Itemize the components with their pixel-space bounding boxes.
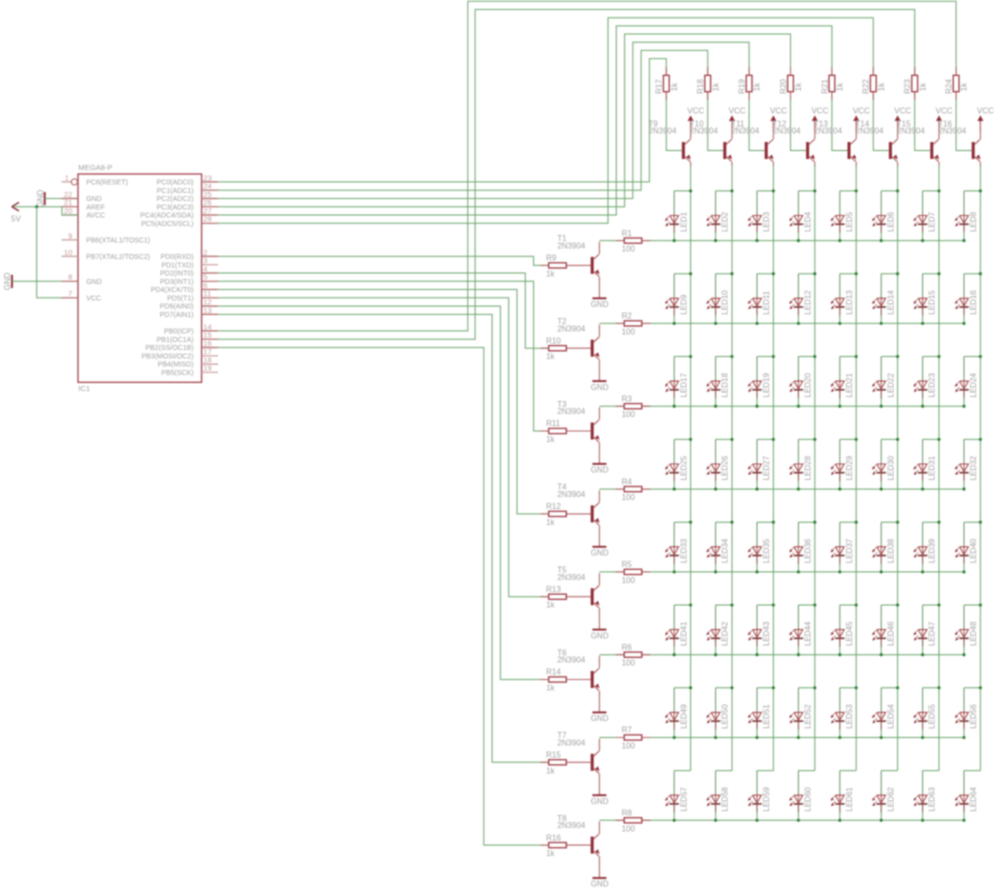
svg-text:2N3904: 2N3904	[855, 127, 884, 136]
LED LED56	[955, 688, 978, 738]
svg-text:LED6: LED6	[886, 211, 895, 232]
wire column 3 vertical	[772, 191, 774, 771]
wire T12 emitter down column 4	[814, 162, 816, 167]
ground symbol GND row 3	[591, 464, 609, 475]
wire column 6 tap to LED38	[881, 521, 897, 523]
svg-text:R12: R12	[546, 502, 561, 511]
svg-text:PC1(ADC1): PC1(ADC1)	[157, 188, 194, 195]
wire row 3 line	[599, 405, 964, 407]
junction LED63 cathode to row 8	[921, 819, 924, 822]
pin 27 PC4(ADC4/SDA) (right)	[140, 206, 218, 219]
junction column 2 row 6 tap	[730, 603, 733, 606]
LED LED3	[748, 191, 771, 241]
junction column 1 row 7 tap	[689, 686, 692, 689]
svg-text:PD7(AIN1): PD7(AIN1)	[160, 312, 194, 319]
svg-text:LED17: LED17	[679, 372, 688, 397]
junction column 4 row 3 tap	[813, 355, 816, 358]
svg-text:100: 100	[622, 327, 636, 336]
svg-text:PB2(SS/OC1B): PB2(SS/OC1B)	[145, 345, 193, 352]
svg-text:1k: 1k	[836, 82, 845, 91]
junction column 5 row 1 tap	[855, 189, 858, 192]
junction LED22 cathode to row 3	[880, 405, 883, 408]
svg-text:2N3904: 2N3904	[731, 127, 760, 136]
svg-text:2N3904: 2N3904	[557, 242, 586, 251]
transistor T12 (column driver)	[806, 139, 815, 161]
wire T6 collector to row resistor R6	[598, 656, 600, 668]
junction column 4 row 6 tap	[813, 603, 816, 606]
wire T10 emitter down column 2	[731, 162, 733, 167]
resistor R21 1k (column driver base)	[820, 75, 844, 94]
junction column 4 row 5 tap	[813, 521, 816, 524]
svg-text:100: 100	[622, 742, 636, 751]
junction LED1 cathode to row 1	[673, 239, 676, 242]
junction column 3 row 7 tap	[772, 686, 775, 689]
junction column 2 row 7 tap	[730, 686, 733, 689]
resistor R1 100 (row 1)	[622, 229, 642, 254]
pin 11 PD5(T1) (right)	[167, 289, 218, 302]
svg-text:PC4(ADC4/SDA): PC4(ADC4/SDA)	[140, 213, 193, 220]
wire column 2 tap to LED58	[716, 770, 732, 772]
svg-text:R8: R8	[622, 809, 633, 818]
svg-text:100: 100	[622, 659, 636, 668]
LED LED60	[789, 771, 812, 821]
resistor R18 1k (column driver base)	[696, 75, 720, 94]
svg-text:LED30: LED30	[886, 455, 895, 480]
svg-text:1k: 1k	[794, 82, 803, 91]
junction column 8 row 2 tap	[979, 272, 982, 275]
wire column 8 tap to LED8	[964, 190, 980, 192]
junction column 3 row 6 tap	[772, 603, 775, 606]
junction LED50 cathode to row 7	[714, 736, 717, 739]
junction LED60 cathode to row 8	[797, 819, 800, 822]
svg-text:GND: GND	[591, 466, 609, 475]
junction LED23 cathode to row 3	[921, 405, 924, 408]
svg-text:LED48: LED48	[969, 621, 978, 646]
wire column 4 tap to LED44	[798, 604, 814, 606]
svg-text:AVCC: AVCC	[86, 213, 105, 220]
svg-text:R23: R23	[903, 79, 912, 94]
transistor T14 (column driver)	[889, 139, 898, 161]
wire column 2 tap to LED50	[716, 687, 732, 689]
svg-text:2N3904: 2N3904	[557, 490, 586, 499]
junction column 1 row 6 tap	[689, 603, 692, 606]
junction column 3 row 5 tap	[772, 521, 775, 524]
label T1 2N3904	[557, 234, 586, 250]
junction LED55 cathode to row 7	[921, 736, 924, 739]
svg-text:LED40: LED40	[969, 538, 978, 563]
junction LED5 cathode to row 1	[838, 239, 841, 242]
transistor T8 (row driver)	[591, 834, 600, 856]
svg-text:LED25: LED25	[679, 455, 688, 480]
svg-text:1k: 1k	[960, 82, 969, 91]
pin 7 VCC (left)	[62, 289, 101, 302]
junction LED48 cathode to row 6	[962, 653, 965, 656]
junction column 5 row 6 tap	[855, 603, 858, 606]
LED LED49	[665, 688, 688, 738]
junction column 1 row 3 tap	[689, 355, 692, 358]
wire column 6 tap to LED54	[881, 687, 897, 689]
junction LED28 cathode to row 4	[797, 488, 800, 491]
svg-text:2N3904: 2N3904	[557, 656, 586, 665]
svg-text:LED11: LED11	[762, 290, 771, 314]
wire column 3 tap to LED27	[757, 438, 773, 440]
pin 16 PB2(SS/OC1B) (right)	[145, 339, 218, 352]
svg-text:1k: 1k	[546, 435, 555, 444]
wire column 3 tap to LED19	[757, 356, 773, 358]
junction LED38 cathode to row 5	[880, 570, 883, 573]
svg-text:PC2(ADC2): PC2(ADC2)	[157, 196, 194, 203]
svg-text:28: 28	[203, 215, 211, 224]
wire pin11 to R13 (row 5 base)	[218, 298, 549, 597]
wire T13 collector to VCC	[855, 121, 857, 140]
supply VCC column 4	[811, 106, 828, 131]
pin 15 PB1(OC1A) (right)	[157, 331, 218, 344]
junction column 8 row 6 tap	[979, 603, 982, 606]
junction LED15 cathode to row 2	[921, 322, 924, 325]
junction column 7 row 5 tap	[937, 521, 940, 524]
svg-text:1k: 1k	[877, 82, 886, 91]
LED LED30	[872, 439, 895, 489]
resistor R14 1k (row 6 base)	[546, 668, 566, 693]
wire R12 to T4 base	[566, 513, 590, 515]
transistor T16 (column driver)	[972, 139, 981, 161]
svg-text:R14: R14	[546, 668, 561, 677]
svg-text:10: 10	[64, 248, 72, 257]
svg-text:LED2: LED2	[721, 211, 730, 232]
junction column 1 row 4 tap	[689, 438, 692, 441]
junction column 4 row 2 tap	[813, 272, 816, 275]
junction LED26 cathode to row 4	[714, 488, 717, 491]
ground symbol GND row 8	[591, 878, 609, 889]
wire column 7 tap to LED7	[923, 190, 939, 192]
svg-text:R21: R21	[820, 79, 829, 94]
LED LED23	[913, 357, 936, 407]
svg-text:2N3904: 2N3904	[814, 127, 843, 136]
junction column 7 row 6 tap	[937, 603, 940, 606]
LED LED27	[748, 439, 771, 489]
wire row 8 line	[599, 819, 964, 821]
node 5V junction	[35, 205, 38, 208]
wire column 2 tap to LED2	[716, 190, 732, 192]
LED LED31	[913, 439, 936, 489]
wire column 1 vertical	[690, 191, 692, 771]
wire R10 to T2 base	[566, 347, 590, 349]
wire column 3 tap to LED11	[757, 273, 773, 275]
wire T6 emitter to GND	[598, 691, 600, 713]
resistor R7 100 (row 7)	[622, 726, 642, 751]
svg-text:R24: R24	[945, 79, 954, 94]
junction column 3 row 1 tap	[772, 189, 775, 192]
wire column 8 tap to LED64	[964, 770, 980, 772]
transistor T10 (column driver)	[723, 139, 732, 161]
junction LED40 cathode to row 5	[962, 570, 965, 573]
LED LED11	[748, 274, 771, 324]
transistor T4 (row driver)	[591, 503, 600, 525]
wire column 7 tap to LED15	[923, 273, 939, 275]
supply VCC column 6	[894, 106, 911, 131]
junction LED17 cathode to row 3	[673, 405, 676, 408]
svg-text:100: 100	[622, 493, 636, 502]
wire R19 to T11 base	[749, 92, 765, 151]
pin 12 PD6(AIN0) (right)	[160, 298, 218, 311]
junction LED12 cathode to row 2	[797, 322, 800, 325]
pin 20 AVCC (left)	[62, 206, 106, 219]
wire R13 to T5 base	[566, 596, 590, 598]
svg-text:PB1(OC1A): PB1(OC1A)	[157, 337, 194, 344]
svg-text:VCC: VCC	[687, 106, 704, 115]
wire column 5 tap to LED21	[840, 356, 856, 358]
LED LED35	[748, 522, 771, 572]
wire column 5 tap to LED13	[840, 273, 856, 275]
pin 2 PD0(RXD) (right)	[161, 248, 219, 261]
transistor T6 (row driver)	[591, 668, 600, 690]
LED LED57	[665, 771, 688, 821]
junction LED33 cathode to row 5	[673, 570, 676, 573]
svg-text:LED13: LED13	[845, 290, 854, 315]
label T9 2N3904	[648, 119, 677, 135]
svg-text:20: 20	[64, 206, 72, 215]
svg-text:GND: GND	[591, 549, 609, 558]
LED LED6	[872, 191, 895, 241]
junction column 7 row 7 tap	[937, 686, 940, 689]
junction LED61 cathode to row 8	[838, 819, 841, 822]
svg-text:1k: 1k	[546, 601, 555, 610]
junction LED29 cathode to row 4	[838, 488, 841, 491]
junction LED24 cathode to row 3	[962, 405, 965, 408]
pin 1 PC6(RESET) (left)	[62, 173, 128, 186]
wire T5 emitter to GND	[598, 608, 600, 630]
wire column 3 tap to LED3	[757, 190, 773, 192]
svg-text:R17: R17	[655, 79, 664, 94]
label T2 2N3904	[557, 317, 586, 333]
junction column 5 row 7 tap	[855, 686, 858, 689]
transistor T7 (row driver)	[591, 751, 600, 773]
junction LED32 cathode to row 4	[962, 488, 965, 491]
svg-text:1k: 1k	[546, 766, 555, 775]
wire pin6 to R12 (row 4 base)	[218, 290, 549, 514]
svg-text:LED21: LED21	[845, 372, 854, 397]
LED LED58	[706, 771, 729, 821]
junction LED14 cathode to row 2	[880, 322, 883, 325]
svg-text:GND: GND	[86, 279, 102, 286]
junction LED45 cathode to row 6	[838, 653, 841, 656]
LED LED1	[665, 191, 688, 241]
svg-text:LED58: LED58	[721, 787, 730, 812]
LED LED32	[955, 439, 978, 489]
svg-text:LED22: LED22	[886, 372, 895, 397]
LED LED9	[665, 274, 688, 324]
wire column 7 tap to LED47	[923, 604, 939, 606]
svg-text:LED33: LED33	[679, 538, 688, 563]
wire column 4 tap to LED28	[798, 438, 814, 440]
svg-text:PC6(RESET): PC6(RESET)	[86, 180, 128, 187]
wire column 8 tap to LED16	[964, 273, 980, 275]
wire column 1 tap to LED49	[674, 687, 690, 689]
svg-text:LED54: LED54	[886, 704, 895, 729]
label T12 2N3904	[773, 119, 802, 135]
junction column 6 row 5 tap	[896, 521, 899, 524]
junction LED27 cathode to row 4	[755, 488, 758, 491]
junction column 4 row 1 tap	[813, 189, 816, 192]
transistor T15 (column driver)	[930, 139, 939, 161]
LED LED63	[913, 771, 936, 821]
wire column 3 tap to LED43	[757, 604, 773, 606]
junction LED54 cathode to row 7	[880, 736, 883, 739]
wire column 5 tap to LED5	[840, 190, 856, 192]
svg-text:GND: GND	[86, 196, 102, 203]
LED LED43	[748, 605, 771, 655]
wire T11 emitter down column 3	[772, 162, 774, 167]
LED LED21	[831, 357, 854, 407]
resistor R11 1k (row 3 base)	[546, 419, 566, 444]
junction LED36 cathode to row 5	[797, 570, 800, 573]
junction LED13 cathode to row 2	[838, 322, 841, 325]
label T6 2N3904	[557, 648, 586, 664]
wire column 5 tap to LED61	[840, 770, 856, 772]
svg-text:R2: R2	[622, 312, 633, 321]
transistor T3 (row driver)	[591, 420, 600, 442]
svg-text:LED26: LED26	[721, 455, 730, 480]
resistor R23 1k (column driver base)	[903, 75, 927, 94]
wire column 6 tap to LED62	[881, 770, 897, 772]
transistor T5 (row driver)	[591, 586, 600, 608]
junction column 5 row 3 tap	[855, 355, 858, 358]
svg-text:2N3904: 2N3904	[557, 738, 586, 747]
svg-text:PD1(TXD): PD1(TXD)	[161, 262, 193, 269]
junction column 6 row 7 tap	[896, 686, 899, 689]
wire AVCC pin20 up to AREF net	[62, 207, 78, 215]
svg-text:VCC: VCC	[936, 106, 953, 115]
junction column 4 row 7 tap	[813, 686, 816, 689]
svg-text:GND: GND	[36, 189, 45, 207]
wire column 7 tap to LED23	[923, 356, 939, 358]
wire PB1 pin15 to R23	[218, 10, 915, 340]
svg-text:LED16: LED16	[969, 290, 978, 315]
LED LED54	[872, 688, 895, 738]
LED LED2	[706, 191, 729, 241]
LED LED15	[913, 274, 936, 324]
resistor R8 100 (row 8)	[622, 809, 642, 834]
svg-text:LED20: LED20	[804, 372, 813, 397]
svg-text:2N3904: 2N3904	[557, 407, 586, 416]
svg-text:R1: R1	[622, 229, 633, 238]
junction LED44 cathode to row 6	[797, 653, 800, 656]
wire column 5 tap to LED45	[840, 604, 856, 606]
junction LED6 cathode to row 1	[880, 239, 883, 242]
wire column 7 tap to LED31	[923, 438, 939, 440]
wire T7 collector to row resistor R7	[598, 739, 600, 751]
svg-text:1: 1	[65, 173, 69, 182]
wire R11 to T3 base	[566, 430, 590, 432]
svg-text:PC3(ADC3): PC3(ADC3)	[157, 204, 194, 211]
junction column 2 row 2 tap	[730, 272, 733, 275]
wire R17 to T9 base	[666, 92, 682, 151]
svg-text:LED19: LED19	[762, 372, 771, 397]
junction column 7 row 4 tap	[937, 438, 940, 441]
junction column 5 row 2 tap	[855, 272, 858, 275]
svg-text:13: 13	[203, 306, 211, 315]
junction LED25 cathode to row 4	[673, 488, 676, 491]
label T8 2N3904	[557, 814, 586, 830]
junction column 7 row 3 tap	[937, 355, 940, 358]
wire PC3 pin26 to R20	[218, 34, 790, 207]
LED LED55	[913, 688, 936, 738]
junction LED3 cathode to row 1	[755, 239, 758, 242]
LED LED53	[831, 688, 854, 738]
svg-text:R19: R19	[738, 79, 747, 94]
svg-text:7: 7	[68, 289, 72, 298]
svg-text:PB7(XTAL2/TOSC2): PB7(XTAL2/TOSC2)	[86, 254, 150, 261]
wire T2 emitter to GND	[598, 360, 600, 382]
svg-text:GND: GND	[591, 714, 609, 723]
svg-text:LED50: LED50	[721, 704, 730, 729]
wire T4 emitter to GND	[598, 525, 600, 547]
wire T14 emitter down column 6	[897, 162, 899, 167]
wire pin2 to R9 (row 1 base)	[218, 256, 549, 265]
svg-text:LED56: LED56	[969, 704, 978, 729]
junction column 3 row 4 tap	[772, 438, 775, 441]
LED LED33	[665, 522, 688, 572]
junction column 6 row 1 tap	[896, 189, 899, 192]
wire 5V junction down to VCC pin7	[37, 207, 62, 298]
svg-text:R20: R20	[779, 79, 788, 94]
wire T8 emitter to GND	[598, 857, 600, 879]
junction LED42 cathode to row 6	[714, 653, 717, 656]
wire column 8 tap to LED40	[964, 521, 980, 523]
resistor R16 1k (row 8 base)	[546, 833, 566, 858]
supply VCC column 8	[977, 106, 994, 131]
svg-text:1k: 1k	[546, 352, 555, 361]
wire column 3 tap to LED59	[757, 770, 773, 772]
svg-text:2N3904: 2N3904	[897, 127, 926, 136]
svg-text:100: 100	[622, 410, 636, 419]
wire column 1 tap to LED17	[674, 356, 690, 358]
junction column 1 row 1 tap	[689, 189, 692, 192]
svg-text:LED63: LED63	[928, 787, 937, 812]
svg-text:2N3904: 2N3904	[938, 127, 967, 136]
svg-text:LED61: LED61	[845, 787, 854, 812]
wire column 6 tap to LED46	[881, 604, 897, 606]
svg-text:LED64: LED64	[969, 787, 978, 812]
wire T1 emitter to GND	[598, 277, 600, 299]
wire T9 collector to VCC	[690, 121, 692, 140]
wire pin13 to R15 (row 7 base)	[218, 314, 549, 762]
pin 25 PC2(ADC2) (right)	[157, 190, 218, 203]
svg-text:PB3(MOSI/OC2): PB3(MOSI/OC2)	[141, 353, 193, 360]
pin 5 PD3(INT1) (right)	[160, 273, 218, 286]
LED LED52	[789, 688, 812, 738]
svg-text:LED31: LED31	[928, 455, 937, 480]
wire column 1 tap to LED33	[674, 521, 690, 523]
junction column 1 row 5 tap	[689, 521, 692, 524]
wire column 8 vertical	[979, 191, 981, 771]
svg-text:VCC: VCC	[977, 106, 994, 115]
svg-text:1k: 1k	[546, 518, 555, 527]
wire T14 collector to VCC	[897, 121, 899, 140]
svg-text:PD3(INT1): PD3(INT1)	[160, 279, 193, 286]
svg-text:R4: R4	[622, 477, 633, 486]
wire row 1 line	[599, 240, 964, 242]
transistor T11 (column driver)	[765, 139, 774, 161]
wire column 4 tap to LED52	[798, 687, 814, 689]
svg-text:R22: R22	[862, 79, 871, 94]
wire column 8 tap to LED56	[964, 687, 980, 689]
svg-text:1k: 1k	[546, 849, 555, 858]
junction LED2 cathode to row 1	[714, 239, 717, 242]
pin 22 GND (left)	[62, 190, 102, 203]
wire pin8 to GND	[12, 280, 62, 282]
wire column 6 tap to LED6	[881, 190, 897, 192]
